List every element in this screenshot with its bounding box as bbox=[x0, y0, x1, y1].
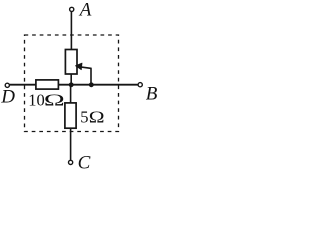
svg-text:Ω: Ω bbox=[89, 107, 105, 126]
svg-text:C: C bbox=[78, 152, 91, 173]
svg-text:D: D bbox=[0, 87, 15, 108]
svg-text:5: 5 bbox=[80, 107, 88, 126]
svg-text:A: A bbox=[78, 0, 92, 21]
svg-text:10: 10 bbox=[28, 90, 45, 109]
svg-text:B: B bbox=[146, 84, 158, 105]
svg-text:Ω: Ω bbox=[44, 90, 65, 109]
